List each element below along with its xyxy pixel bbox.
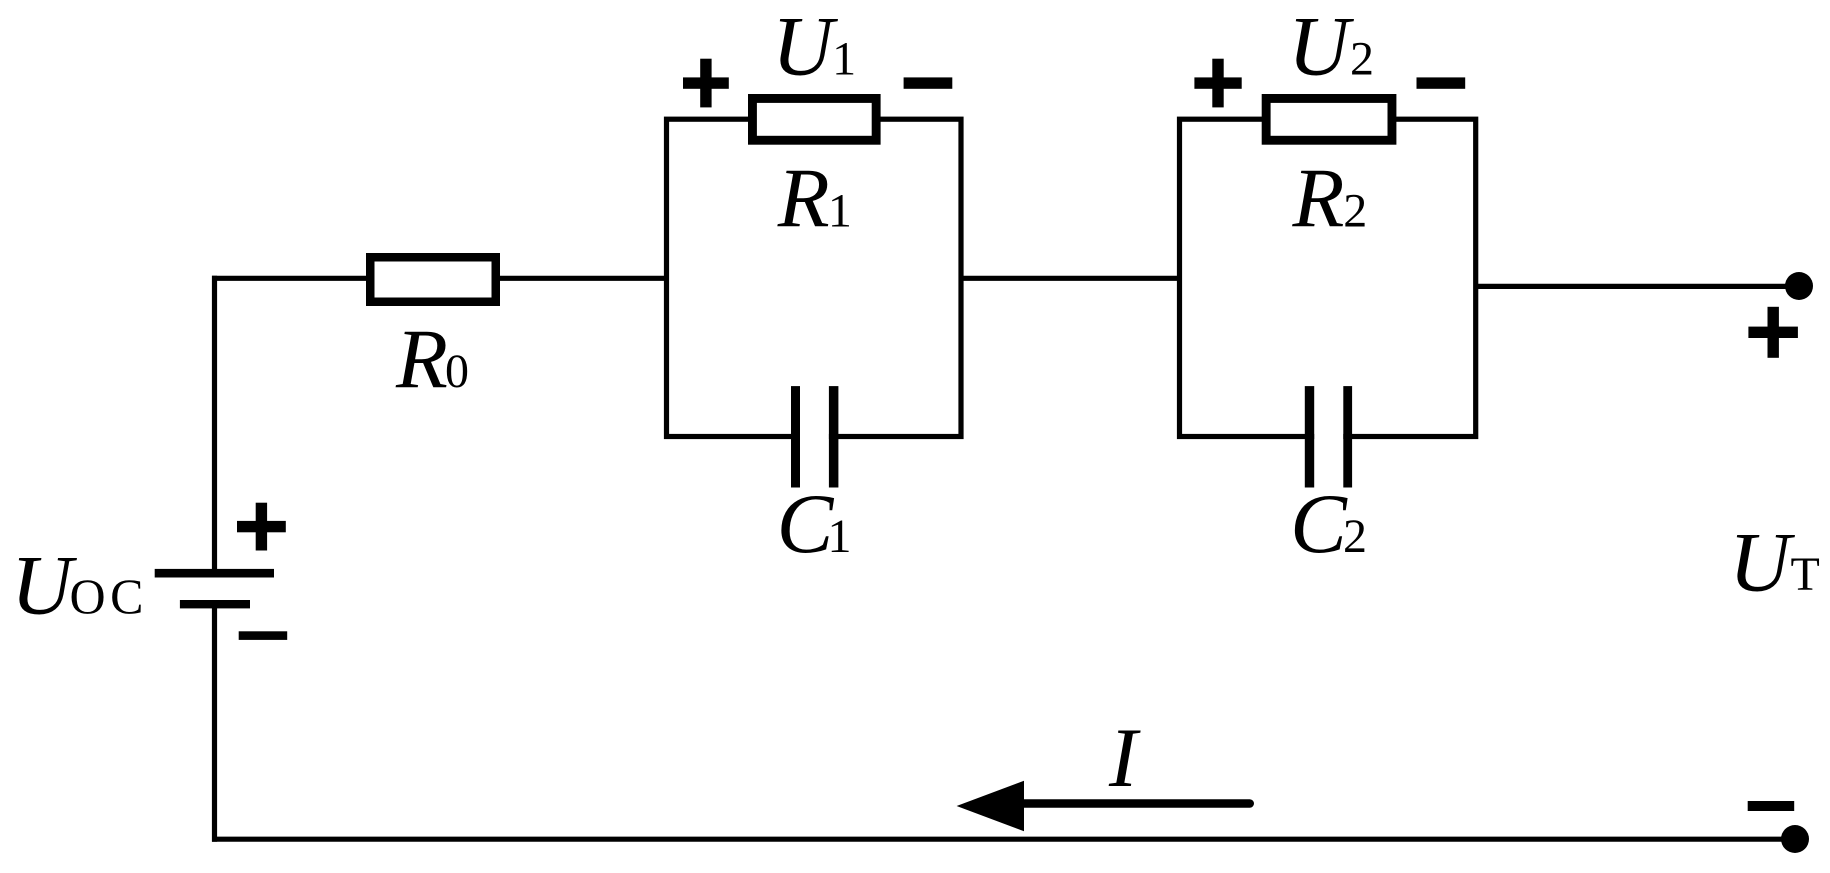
svg-text:1: 1: [828, 510, 852, 563]
plus sign for U2: [1194, 59, 1241, 108]
svg-text:2: 2: [1343, 510, 1367, 563]
svg-text:C: C: [777, 477, 835, 571]
current arrow I head: [957, 781, 1024, 831]
wire: top horizontal from battery branch through R0 to RC loop 1: [212, 276, 667, 281]
svg-text:U: U: [11, 539, 77, 633]
wire: between RC loop 1 and RC loop 2: [961, 276, 1180, 281]
battery minus sign: [239, 631, 288, 640]
wire: left vertical from battery negative plate down to bottom wire: [212, 608, 217, 842]
svg-text:OC: OC: [70, 568, 148, 624]
wire: bottom return wire: [212, 837, 1795, 842]
resistor R2 body: [1266, 98, 1392, 140]
capacitor C1 gap mask: [800, 382, 829, 492]
svg-text:C: C: [1290, 477, 1348, 571]
minus sign for U1: [904, 77, 953, 88]
output plus sign: [1748, 307, 1798, 358]
output positive terminal dot: [1785, 272, 1813, 300]
svg-text:U: U: [1729, 516, 1795, 610]
svg-text:I: I: [1108, 711, 1141, 805]
svg-text:2: 2: [1350, 33, 1374, 86]
wire: left vertical from top wire down to battery positive plate: [212, 276, 217, 569]
minus sign for U2: [1417, 77, 1466, 88]
output negative terminal dot: [1781, 825, 1809, 853]
capacitor C1 right plate: [829, 386, 839, 487]
output minus sign: [1748, 801, 1795, 811]
battery plus sign: [237, 503, 286, 551]
capacitor C2 right plate: [1343, 386, 1352, 487]
wire: RC loop 2 rectangle: [1180, 119, 1476, 436]
resistor R0 body: [370, 257, 496, 302]
svg-text:R: R: [1292, 151, 1345, 245]
svg-text:R: R: [777, 151, 830, 245]
svg-text:U: U: [1288, 0, 1354, 94]
svg-text:U: U: [772, 0, 838, 94]
svg-text:T: T: [1791, 548, 1820, 601]
svg-text:0: 0: [445, 345, 469, 398]
svg-text:1: 1: [828, 184, 852, 237]
battery U_OC negative (short) plate: [180, 600, 250, 608]
resistor R1 body: [752, 98, 876, 140]
wire: output wire to positive terminal: [1476, 284, 1799, 289]
plus sign for U1: [683, 59, 729, 108]
capacitor C1 left plate: [791, 386, 800, 487]
wire: RC loop 1 rectangle: [667, 119, 962, 436]
svg-text:R: R: [395, 312, 448, 406]
capacitor C2 left plate: [1305, 386, 1314, 487]
svg-text:2: 2: [1343, 184, 1367, 237]
current arrow I shaft: [1024, 799, 1250, 808]
capacitor C2 gap mask: [1314, 382, 1343, 492]
svg-text:1: 1: [832, 33, 856, 86]
battery U_OC positive (long) plate: [155, 569, 274, 578]
